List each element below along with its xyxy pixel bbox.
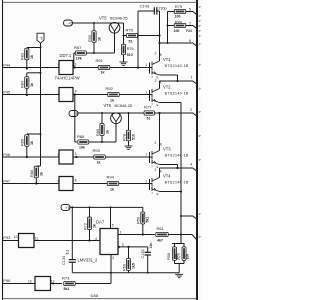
svg-text:P: P [199, 212, 201, 216]
svg-text:+5: +5 [66, 206, 70, 210]
svg-text:R78: R78 [122, 134, 126, 141]
svg-text:+5: +5 [68, 22, 72, 26]
svg-text:10n: 10n [149, 242, 153, 248]
svg-text:E: E [157, 103, 159, 107]
svg-text:1k: 1k [97, 37, 101, 41]
svg-text:74AHC14PW: 74AHC14PW [55, 76, 80, 81]
svg-text:R91: R91 [96, 58, 104, 63]
svg-text:1k: 1k [30, 83, 34, 87]
svg-text:BTS2140-1B: BTS2140-1B [165, 153, 189, 157]
svg-text:R76: R76 [127, 47, 134, 51]
svg-text:R92: R92 [106, 86, 114, 91]
svg-text:100: 100 [175, 15, 181, 19]
svg-text:P45: P45 [3, 91, 10, 95]
svg-text:1: 1 [191, 76, 193, 80]
svg-text:P: P [199, 29, 201, 33]
svg-text:R93: R93 [93, 148, 101, 153]
svg-text:R89: R89 [96, 129, 100, 136]
svg-text:P44: P44 [3, 64, 10, 68]
svg-text:R59: R59 [137, 217, 141, 224]
svg-text:DD7:1: DD7:1 [60, 53, 72, 58]
svg-text:6: 6 [75, 152, 77, 156]
svg-text:DA8: DA8 [91, 293, 100, 298]
svg-text:R90: R90 [88, 35, 92, 42]
svg-text:P: P [199, 5, 201, 9]
svg-text:220p: 220p [158, 6, 166, 10]
svg-text:BC846-25: BC846-25 [110, 16, 128, 21]
svg-text:1: 1 [145, 63, 147, 67]
svg-text:R80: R80 [175, 19, 183, 24]
svg-text:5k1: 5k1 [64, 287, 70, 291]
svg-text:R68: R68 [77, 134, 85, 139]
svg-text:P: P [199, 19, 201, 23]
svg-text:51: 51 [129, 39, 133, 43]
svg-text:2: 2 [190, 108, 192, 112]
svg-text:R77: R77 [144, 105, 152, 110]
svg-text:P: P [199, 24, 201, 28]
svg-text:4: 4 [75, 90, 77, 94]
svg-text:E: E [157, 75, 159, 79]
svg-text:C143: C143 [140, 4, 150, 9]
svg-text:510: 510 [132, 134, 136, 140]
svg-text:2: 2 [155, 141, 157, 145]
svg-text:BTS2140-1B: BTS2140-1B [165, 91, 189, 95]
svg-text:BC846-25: BC846-25 [115, 103, 133, 108]
svg-text:2: 2 [75, 63, 77, 67]
svg-text:5: 5 [41, 37, 43, 41]
svg-text:1k: 1k [40, 172, 44, 176]
svg-text:10k: 10k [76, 56, 82, 60]
svg-text:P47: P47 [3, 180, 10, 184]
svg-text:BTS2140-1B: BTS2140-1B [165, 180, 189, 184]
svg-text:E: E [157, 192, 159, 196]
svg-text:8: 8 [75, 179, 77, 183]
svg-text:P46: P46 [3, 153, 10, 157]
svg-text:5: 5 [112, 224, 114, 228]
svg-text:510: 510 [127, 53, 133, 57]
svg-text:1k: 1k [97, 161, 101, 165]
svg-text:51: 51 [147, 117, 151, 121]
svg-text:1k: 1k [101, 71, 105, 75]
svg-text:1k: 1k [30, 55, 34, 59]
svg-text:100: 100 [185, 254, 189, 260]
svg-text:1: 1 [145, 180, 147, 184]
svg-text:P: P [199, 235, 201, 239]
svg-text:R72: R72 [83, 223, 87, 230]
svg-text:P: P [199, 14, 201, 18]
svg-text:2: 2 [112, 256, 114, 260]
svg-text:VT5: VT5 [99, 16, 107, 21]
svg-text:R60: R60 [122, 264, 126, 271]
svg-text:C134: C134 [62, 256, 66, 265]
svg-text:VT2: VT2 [163, 84, 171, 89]
svg-text:3: 3 [58, 91, 60, 95]
svg-text:P: P [199, 110, 201, 114]
svg-text:R61: R61 [157, 226, 165, 231]
svg-text:2: 2 [155, 52, 157, 56]
svg-text:LMV331_2: LMV331_2 [78, 258, 99, 263]
svg-text:C135: C135 [141, 249, 145, 258]
svg-text:P: P [199, 134, 201, 138]
svg-text:1k: 1k [93, 224, 97, 228]
svg-text:5: 5 [58, 153, 60, 157]
svg-text:VT6: VT6 [104, 103, 112, 108]
svg-text:2: 2 [189, 22, 191, 26]
svg-text:R85: R85 [21, 139, 25, 146]
svg-text:1: 1 [145, 153, 147, 157]
svg-text:1k: 1k [110, 98, 114, 102]
svg-text:VT1: VT1 [163, 57, 171, 62]
svg-text:0.1: 0.1 [65, 250, 69, 255]
svg-text:P: P [199, 87, 201, 91]
svg-text:R73: R73 [62, 275, 70, 280]
svg-text:11: 11 [35, 237, 39, 241]
svg-text:VT4: VT4 [163, 173, 171, 178]
svg-text:1k: 1k [110, 187, 114, 191]
svg-text:BTS2140-1B: BTS2140-1B [165, 64, 189, 68]
svg-text:R94: R94 [107, 175, 115, 180]
svg-text:R70: R70 [177, 253, 181, 260]
svg-text:P96: P96 [3, 278, 11, 283]
svg-text:5: 5 [189, 7, 191, 11]
svg-text:+5: +5 [74, 112, 78, 116]
svg-text:P: P [199, 158, 201, 162]
svg-text:1: 1 [145, 91, 147, 95]
svg-text:10: 10 [14, 235, 18, 239]
svg-text:P: P [199, 34, 201, 38]
svg-text:1k: 1k [105, 130, 109, 134]
svg-text:6: 6 [189, 39, 191, 43]
svg-text:100: 100 [174, 29, 180, 33]
svg-text:R58: R58 [167, 253, 171, 260]
svg-text:2: 2 [155, 79, 157, 83]
svg-text:R67: R67 [74, 45, 82, 50]
svg-text:R75: R75 [126, 27, 134, 32]
svg-text:5k1: 5k1 [146, 217, 150, 223]
svg-text:1k5: 1k5 [132, 263, 136, 269]
svg-text:P93: P93 [3, 235, 11, 240]
svg-text:2: 2 [155, 168, 157, 172]
svg-text:R79: R79 [175, 4, 183, 9]
svg-text:3: 3 [122, 243, 124, 247]
svg-text:10k: 10k [79, 145, 85, 149]
svg-text:1: 1 [120, 230, 122, 234]
svg-text:9: 9 [58, 180, 60, 184]
svg-text:E: E [157, 165, 159, 169]
svg-text:P: P [199, 63, 201, 67]
svg-text:R84: R84 [21, 81, 25, 88]
svg-text:4k7: 4k7 [157, 238, 163, 242]
svg-text:R86: R86 [30, 170, 34, 177]
svg-text:P: P [199, 42, 201, 46]
svg-text:1: 1 [58, 64, 60, 68]
svg-text:1k: 1k [30, 141, 34, 145]
svg-text:DA7: DA7 [96, 219, 105, 224]
svg-text:R83: R83 [21, 53, 25, 60]
svg-text:P86: P86 [186, 29, 193, 33]
svg-text:VT3: VT3 [163, 146, 171, 151]
svg-text:4: 4 [190, 163, 192, 167]
